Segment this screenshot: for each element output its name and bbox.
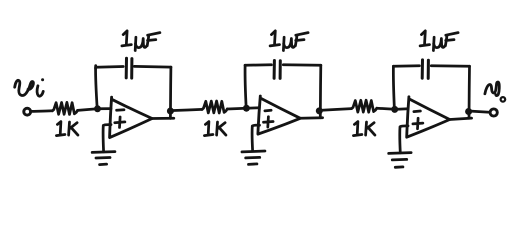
wire feedback left vertical (stage 2) bbox=[245, 65, 246, 108]
wire feedback left vertical (stage 1) bbox=[96, 67, 98, 108]
wire node A1 to op-amp input bbox=[98, 107, 112, 110]
resistor R1 bbox=[52, 102, 77, 114]
input terminal vi bbox=[24, 108, 31, 115]
wire plus input to ground (stage 3) bbox=[400, 126, 408, 153]
wire op-amp U2 output bbox=[300, 116, 322, 119]
label 1uF (C1) bbox=[122, 31, 160, 51]
resistor R2 bbox=[202, 101, 227, 113]
wire node A3 to op-amp input bbox=[395, 107, 408, 110]
wire feedback top left (stage 3) bbox=[393, 64, 419, 67]
wire feedback top left (stage 1) bbox=[96, 66, 124, 69]
node A2 bbox=[243, 105, 250, 112]
wire B3 to output terminal bbox=[469, 111, 490, 112]
capacitor C1 bbox=[126, 58, 132, 78]
wire op-amp U1 output bbox=[152, 117, 174, 120]
label vo bbox=[485, 82, 505, 102]
wire node A2 to op-amp input bbox=[246, 106, 259, 109]
node A3 bbox=[391, 106, 398, 113]
wire input to R1 bbox=[31, 109, 52, 112]
wire R2 to node A2 bbox=[227, 107, 246, 110]
output terminal vo bbox=[490, 109, 497, 116]
wire plus input to ground (stage 1) bbox=[103, 125, 111, 152]
wire R3 to node A3 bbox=[377, 108, 395, 109]
op-amp U2 bbox=[258, 96, 300, 134]
ground (stage 3) bbox=[389, 153, 411, 168]
label 1K (R1) bbox=[56, 122, 78, 136]
label 1K (R3) bbox=[353, 122, 375, 136]
wire B1 to R2 bbox=[170, 109, 202, 110]
node A1 bbox=[94, 105, 101, 112]
node B1 bbox=[167, 108, 174, 115]
wire feedback top right (stage 1) bbox=[134, 65, 171, 68]
wire op-amp U3 output bbox=[450, 118, 472, 119]
node B3 bbox=[465, 108, 472, 115]
wire feedback right vertical (stage 3) bbox=[468, 66, 471, 118]
wire feedback top left (stage 2) bbox=[245, 63, 271, 66]
label 1uF (C2) bbox=[270, 31, 308, 51]
wire feedback left vertical (stage 3) bbox=[393, 66, 394, 109]
label 1uF (C3) bbox=[420, 31, 458, 51]
node B2 bbox=[316, 107, 323, 114]
ground (stage 2) bbox=[242, 151, 265, 164]
label vi bbox=[15, 78, 44, 96]
wire feedback right vertical (stage 2) bbox=[319, 65, 322, 118]
wire feedback top right (stage 3) bbox=[431, 64, 469, 67]
ground (stage 1) bbox=[92, 152, 115, 165]
op-amp U1 bbox=[110, 97, 153, 137]
label 1K (R2) bbox=[204, 122, 226, 136]
wire feedback right vertical (stage 1) bbox=[169, 67, 172, 118]
capacitor C3 bbox=[422, 60, 428, 79]
resistor R3 bbox=[352, 100, 377, 112]
wire R1 to node A1 bbox=[78, 109, 98, 111]
op-amp U3 bbox=[407, 97, 450, 137]
wire B2 to R3 bbox=[319, 109, 351, 111]
wire feedback top right (stage 2) bbox=[283, 63, 321, 66]
capacitor C2 bbox=[274, 61, 280, 79]
wire plus input to ground (stage 2) bbox=[252, 125, 259, 150]
